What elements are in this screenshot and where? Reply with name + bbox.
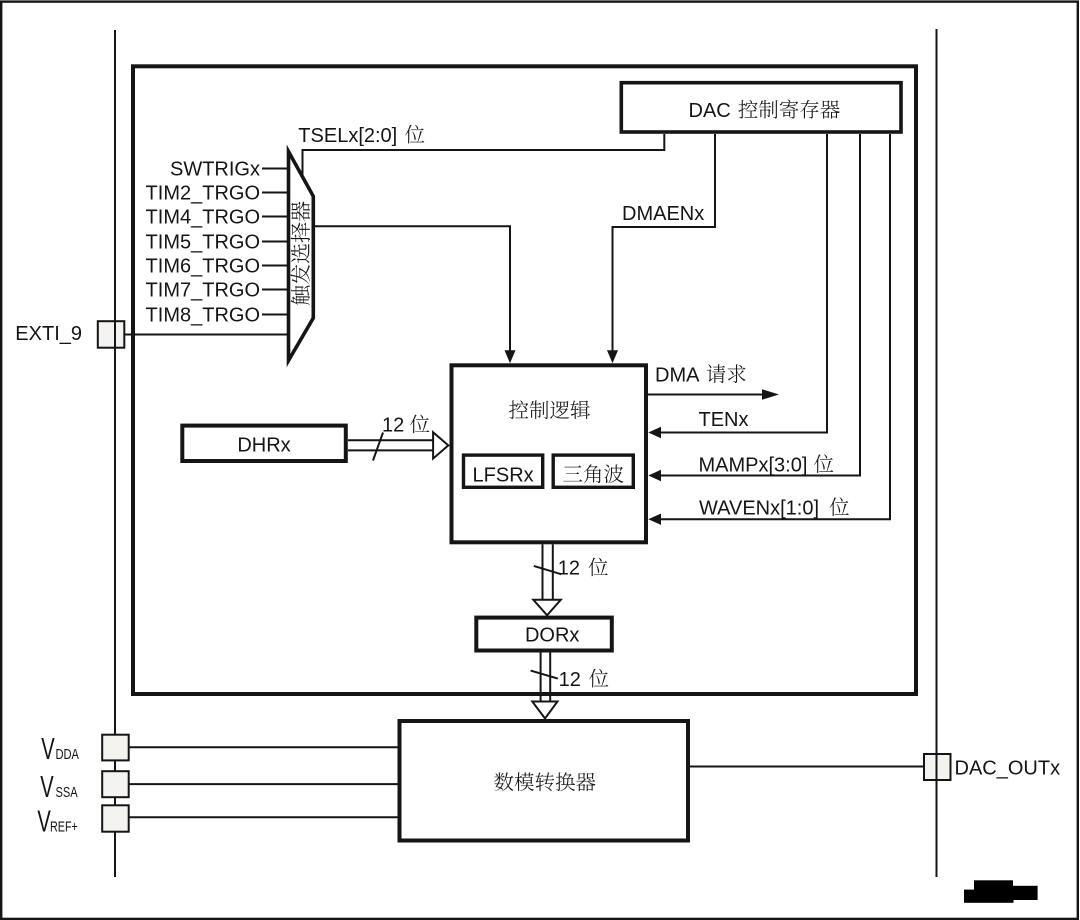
svg-text:LFSRx: LFSRx <box>473 465 534 487</box>
svg-text:DORx: DORx <box>525 624 579 646</box>
input TIM4_TRGO <box>146 207 287 229</box>
wire: VDDA to DAC <box>129 746 398 748</box>
svg-text:TENx: TENx <box>699 409 749 431</box>
input TIM5_TRGO <box>146 232 287 254</box>
label: 12 位 (DAC input bus) <box>559 669 609 691</box>
block: control logic (控制逻辑) <box>452 365 647 542</box>
register DORx <box>476 618 612 651</box>
input TIM8_TRGO <box>146 305 287 327</box>
svg-text:WAVENx[1:0]: WAVENx[1:0] <box>699 498 819 520</box>
input TIM7_TRGO <box>146 280 287 302</box>
svg-text:TIM8_TRGO: TIM8_TRGO <box>146 305 260 327</box>
wire: TENx from DAC control register to control logic <box>648 134 827 438</box>
label: WAVENx[1:0] 位 <box>699 497 849 519</box>
wire: MAMPx[3:0] from DAC control register to control logic <box>648 134 860 481</box>
svg-text:DHRx: DHRx <box>237 435 290 457</box>
svg-text:DMAENx: DMAENx <box>622 203 704 225</box>
register: DAC control register (DAC 控制寄存器) <box>621 83 901 132</box>
svg-text:SSA: SSA <box>56 783 78 800</box>
pin EXTI_9 <box>15 321 124 348</box>
svg-text:TSELx[2:0]: TSELx[2:0] <box>298 125 397 147</box>
label: 12 位 (DORx input bus) <box>558 558 608 580</box>
pin VREF+ <box>37 803 128 839</box>
redaction blob (bottom right) <box>964 880 1038 903</box>
block: digital-to-analog converter (数模转换器) <box>400 721 689 841</box>
svg-text:TIM7_TRGO: TIM7_TRGO <box>146 280 260 302</box>
input TIM6_TRGO <box>146 256 287 278</box>
wire: DMAENx from DAC control register to control logic <box>607 134 715 363</box>
svg-text:12: 12 <box>382 415 404 437</box>
svg-text:TIM2_TRGO: TIM2_TRGO <box>146 183 260 205</box>
wire: WAVENx[1:0] from DAC control register to control logic <box>648 134 890 525</box>
DAC peripheral block boundary <box>133 66 916 694</box>
wire: DAC to DAC_OUTx <box>690 766 924 768</box>
bus: DHRx to control logic (12-bit), open arrow <box>348 432 448 460</box>
svg-text:SWTRIGx: SWTRIGx <box>170 159 260 181</box>
label: TSELx[2:0] 位 <box>298 125 424 147</box>
svg-text:MAMPx[3:0]: MAMPx[3:0] <box>699 455 808 477</box>
svg-text:TIM5_TRGO: TIM5_TRGO <box>146 232 260 254</box>
mux: trigger selector (触发选择器) <box>289 152 314 361</box>
register DHRx <box>182 426 345 461</box>
input SWTRIGx <box>170 159 287 181</box>
pin VSSA <box>40 769 129 805</box>
input TIM2_TRGO <box>146 183 287 205</box>
label: DMA 请求 <box>655 364 746 386</box>
pin DAC_OUTx <box>924 754 1060 780</box>
svg-text:12: 12 <box>558 558 580 580</box>
register LFSRx <box>464 455 543 487</box>
svg-text:EXTI_9: EXTI_9 <box>15 323 82 345</box>
wire: trigger selector output to control logic <box>313 226 515 363</box>
svg-text:DAC_OUTx: DAC_OUTx <box>955 758 1061 780</box>
svg-text:TIM4_TRGO: TIM4_TRGO <box>146 207 260 229</box>
svg-text:V: V <box>40 769 54 805</box>
bus: DORx to DAC (12-bit), open arrow down <box>531 652 558 719</box>
svg-text:DMA: DMA <box>655 365 700 387</box>
svg-text:V: V <box>37 803 51 839</box>
bus: control logic to DORx (12-bit), open arrow down <box>533 544 561 615</box>
wire: DMA request output (DMA 请求) <box>648 389 779 399</box>
svg-text:TIM6_TRGO: TIM6_TRGO <box>146 256 260 278</box>
svg-text:DDA: DDA <box>56 745 80 762</box>
label: 12 位 (DHRx bus width) <box>382 415 429 437</box>
svg-text:DAC: DAC <box>689 100 731 122</box>
block: triangle wave (三角波) <box>553 455 633 487</box>
wire: TSELx[2:0] from DAC control register to trigger selector <box>303 134 665 178</box>
pin VDDA <box>41 731 128 767</box>
svg-text:REF+: REF+ <box>50 818 78 835</box>
svg-text:12: 12 <box>559 669 581 691</box>
chip boundary rail (right) <box>936 29 938 877</box>
wire: VREF+ to DAC <box>129 816 398 818</box>
svg-text:V: V <box>41 731 55 767</box>
label: MAMPx[3:0] 位 <box>699 454 834 476</box>
chip boundary rail (left) <box>114 30 116 877</box>
wire: VSSA to DAC <box>129 783 398 785</box>
wire: EXTI_9 to trigger selector <box>124 334 287 336</box>
